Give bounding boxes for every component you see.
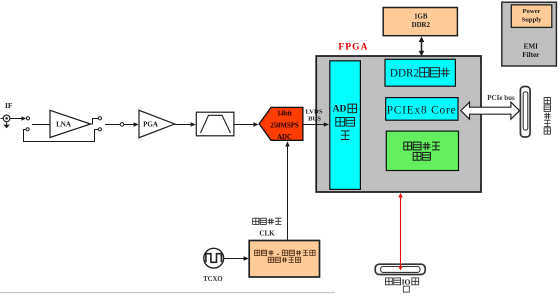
svg-text:1GB: 1GB bbox=[414, 13, 428, 20]
label IF input bbox=[5, 101, 13, 110]
oscillator TCXO bbox=[204, 248, 224, 268]
switch S2 throw contacts bbox=[98, 117, 101, 131]
svg-text:PCIe bus: PCIe bus bbox=[487, 94, 515, 102]
wire TCXO to clock generator bbox=[224, 256, 249, 261]
svg-text:Power: Power bbox=[523, 8, 541, 15]
module EMI filter bbox=[502, 2, 557, 66]
svg-text:DDR2: DDR2 bbox=[390, 68, 419, 80]
svg-text:Supply: Supply bbox=[522, 16, 543, 23]
svg-text:14bit: 14bit bbox=[277, 111, 292, 118]
label EMI Filter bbox=[522, 42, 540, 59]
wire LVDS bus ADC to FPGA bbox=[303, 122, 329, 127]
bus PCIe double hollow arrow bbox=[461, 102, 520, 119]
amplifier PGA bbox=[139, 110, 175, 137]
svg-text:AD: AD bbox=[333, 105, 347, 115]
block DDR2 controller bbox=[385, 59, 455, 86]
clock generator U4 low jitter bbox=[249, 241, 319, 278]
svg-text:EMI: EMI bbox=[524, 42, 539, 50]
label backplane connector 背板连接器 bbox=[544, 97, 550, 134]
wire S1 to LNA input bbox=[32, 124, 51, 126]
svg-text:BUS: BUS bbox=[308, 116, 321, 123]
filter BPF bandpass bbox=[196, 112, 234, 136]
separator line bbox=[0, 292, 335, 294]
block PCIEx8 Core bbox=[386, 98, 458, 121]
svg-text:PCIEx8 Core: PCIEx8 Core bbox=[387, 105, 457, 117]
svg-text:250MSPS: 250MSPS bbox=[270, 123, 299, 130]
wire BPF to ADC bbox=[234, 122, 259, 127]
svg-text:Filter: Filter bbox=[522, 51, 540, 59]
svg-text:ADC: ADC bbox=[277, 134, 292, 141]
bus expansion IO double arrow (red) bbox=[398, 193, 402, 271]
ADC U1 14bit 250MSPS bbox=[259, 107, 303, 141]
svg-text:IO: IO bbox=[402, 278, 411, 287]
label FPGA bbox=[338, 42, 368, 52]
svg-text:CLK: CLK bbox=[259, 230, 275, 238]
switch S1 throw contacts bbox=[26, 117, 30, 131]
wire J1 to switch S1 bbox=[10, 116, 26, 120]
connector J2 backplane slot bbox=[520, 87, 530, 138]
wire LNA output to switch S2 bbox=[90, 119, 98, 125]
label adjustable frequency CLK bbox=[253, 218, 282, 237]
node A bbox=[120, 123, 124, 127]
svg-text:IF: IF bbox=[5, 101, 13, 110]
wire PGA to BPF bbox=[175, 122, 196, 127]
svg-text:LNA: LNA bbox=[56, 121, 71, 129]
module power supply bbox=[511, 5, 552, 28]
ground bbox=[3, 122, 9, 129]
wire S2 to PGA bbox=[105, 122, 139, 127]
block AD control logic bbox=[330, 61, 361, 190]
label PCIe bus bbox=[487, 94, 515, 102]
label 扩展IO接口 bbox=[385, 278, 418, 293]
block data algorithm module bbox=[386, 131, 458, 170]
svg-text:FPGA: FPGA bbox=[338, 42, 368, 52]
amplifier LNA bbox=[50, 110, 91, 137]
memory U3 1GB DDR2 bbox=[383, 8, 457, 36]
label TCXO bbox=[203, 276, 223, 283]
wire DDR2 memory bus double arrow bbox=[419, 36, 425, 56]
wire bypass path bbox=[24, 130, 99, 142]
svg-text:DDR2: DDR2 bbox=[412, 22, 431, 29]
svg-text:LVDS: LVDS bbox=[306, 108, 323, 115]
connector J3 expansion IO bbox=[375, 264, 425, 274]
FPGA U2 bbox=[316, 56, 481, 192]
svg-text:TCXO: TCXO bbox=[203, 276, 223, 283]
wire CLK clock generator to ADC bbox=[285, 141, 290, 240]
svg-text:PGA: PGA bbox=[143, 121, 158, 129]
label LVDS BUS bbox=[306, 108, 323, 122]
connector J1 IF coax input bbox=[1, 115, 10, 122]
